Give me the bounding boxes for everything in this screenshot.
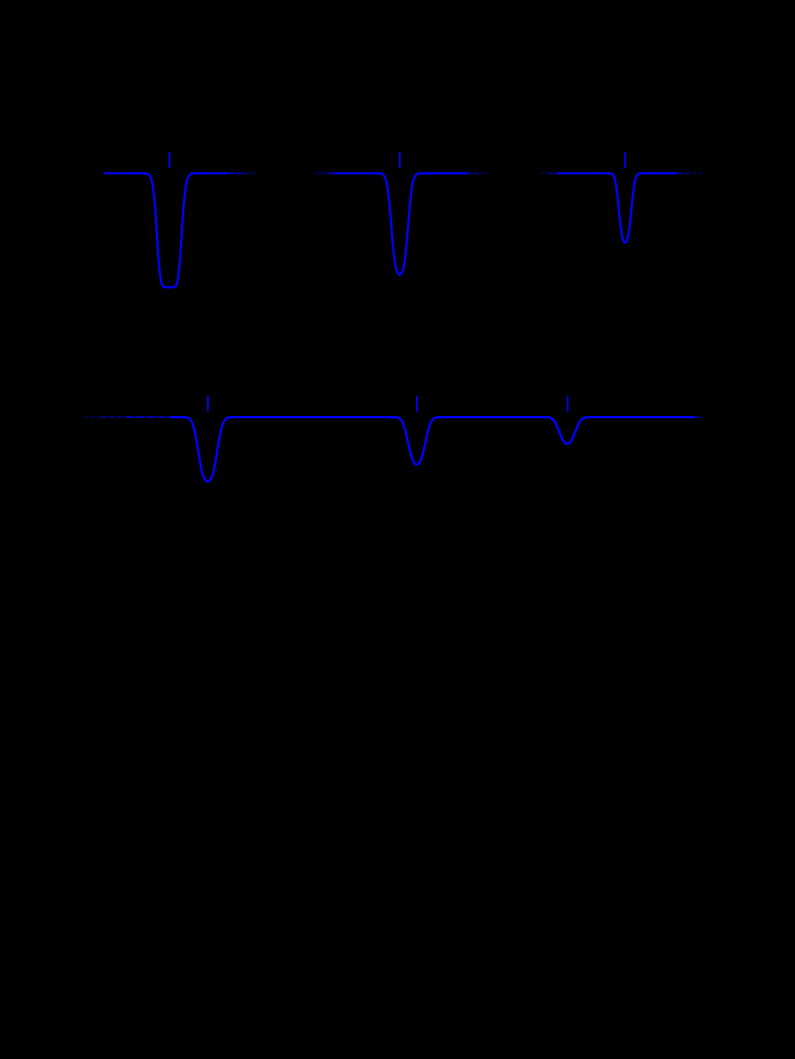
faded dashed continuum lead-in left of profile 2	[315, 172, 336, 174]
lower spectrum with three absorption dips of decreasing strength	[170, 417, 695, 481]
tick mark above lower dip 3	[567, 396, 569, 412]
faded dashed continuum tail right of profile 3	[640, 172, 704, 174]
faded dashed continuum lead-in, left end of lower spectrum	[83, 416, 170, 418]
faded dashed continuum tail right of profile 1	[229, 172, 257, 174]
tick mark above line 3 center	[624, 152, 626, 168]
spectrum line profile 1 (strong saturated absorption line, top row left)	[104, 173, 228, 287]
tick mark above line 1 center	[168, 152, 170, 168]
spectrum line profile 3 (weak absorption line, top row right)	[557, 173, 678, 242]
spectrum line profile 2 (medium absorption line, top row middle)	[335, 173, 468, 274]
tick mark above lower dip 1	[207, 396, 209, 412]
faded dashed continuum lead-in left of profile 3	[541, 172, 557, 174]
tick mark above lower dip 2	[416, 396, 418, 412]
faded dashed continuum tail right of profile 2	[434, 172, 488, 174]
tick mark above line 2 center	[399, 152, 401, 168]
faded continuum tail, right end of lower spectrum	[695, 416, 704, 418]
